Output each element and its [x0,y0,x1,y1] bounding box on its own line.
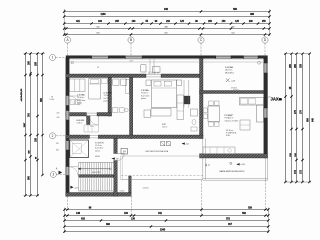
svg-text:NA DIJELU: NA DIJELU [225,71,235,74]
svg-text:KUH.: KUH. [226,135,231,137]
svg-text:16,67 m²: 16,67 m² [225,69,233,72]
svg-text:5,18 m²: 5,18 m² [77,122,83,125]
svg-text:1545: 1545 [160,228,166,231]
svg-text:JAΧ≌: JAΧ≌ [271,96,283,101]
svg-text:+0,75: +0,75 [74,188,78,190]
svg-text:P.STANŽ: P.STANŽ [225,114,234,117]
svg-text:S.SOBA: S.SOBA [225,66,233,69]
svg-text:Obračun 27,38m²: Obračun 27,38m² [225,119,239,122]
svg-text:16x17,5/28: 16x17,5/28 [92,172,100,174]
svg-text:-0,15: -0,15 [185,144,189,146]
svg-text:1x75cm: 1x75cm [143,187,150,189]
svg-text:2.08: 2.08 [129,60,132,62]
svg-text:105: 105 [57,117,60,119]
svg-text:17,50 m²: 17,50 m² [104,94,112,97]
svg-text:S=17,50m²: S=17,50m² [104,97,113,100]
svg-text:PVTALŽ m²: PVTALŽ m² [225,117,235,120]
svg-text:1: 1 [52,56,54,60]
svg-text:641: 641 [56,150,59,152]
svg-text:2: 2 [52,134,54,138]
svg-text:RAVNI NEPROHODNI KROV: RAVNI NEPROHODNI KROV [220,170,246,173]
svg-text:S=12,45m²: S=12,45m² [95,147,104,150]
svg-text:55: 55 [209,164,211,166]
svg-text:070/210: 070/210 [231,88,237,90]
svg-text:1.20: 1.20 [90,126,93,128]
svg-text:3: 3 [52,173,54,177]
svg-text:1138: 1138 [101,14,107,16]
svg-text:-0,08: -0,08 [231,81,235,83]
svg-text:STUBIŠTE: STUBIŠTE [95,142,105,145]
svg-text:35,35 m²: 35,35 m² [226,129,234,132]
svg-text:+0,08: +0,08 [240,164,245,166]
svg-text:S=17,50m²: S=17,50m² [141,94,150,97]
svg-text:2.SOBA: 2.SOBA [141,89,149,92]
svg-text:1x75m: 1x75m [120,190,126,192]
svg-text:parket: parket [141,97,146,100]
svg-text:L1: L1 [97,67,99,69]
svg-text:12,45 m²: 12,45 m² [95,144,102,147]
svg-text:4,60 m²: 4,60 m² [162,126,168,129]
svg-text:ULAZ NEPROHODNA VEZA: ULAZ NEPROHODNA VEZA [145,150,169,153]
svg-text:kamen: kamen [95,150,100,152]
svg-text:1.SOBA: 1.SOBA [77,94,85,97]
svg-text:IZ.SOBA: IZ.SOBA [104,92,113,95]
svg-text:IZLAZ: IZLAZ [95,155,100,158]
svg-text:0,75m: 0,75m [50,99,55,101]
svg-text:100: 100 [206,164,208,167]
svg-text:110: 110 [56,143,59,145]
svg-text:parket: parket [77,101,82,104]
svg-text:S=11,50m²: S=11,50m² [77,99,86,102]
svg-text:11,50 m²: 11,50 m² [77,96,85,99]
svg-text:±0,00=115,30: ±0,00=115,30 [21,88,23,101]
svg-text:17,50 m²: 17,50 m² [141,92,149,95]
svg-text:parket: parket [104,99,109,102]
svg-text:250: 250 [57,113,60,115]
